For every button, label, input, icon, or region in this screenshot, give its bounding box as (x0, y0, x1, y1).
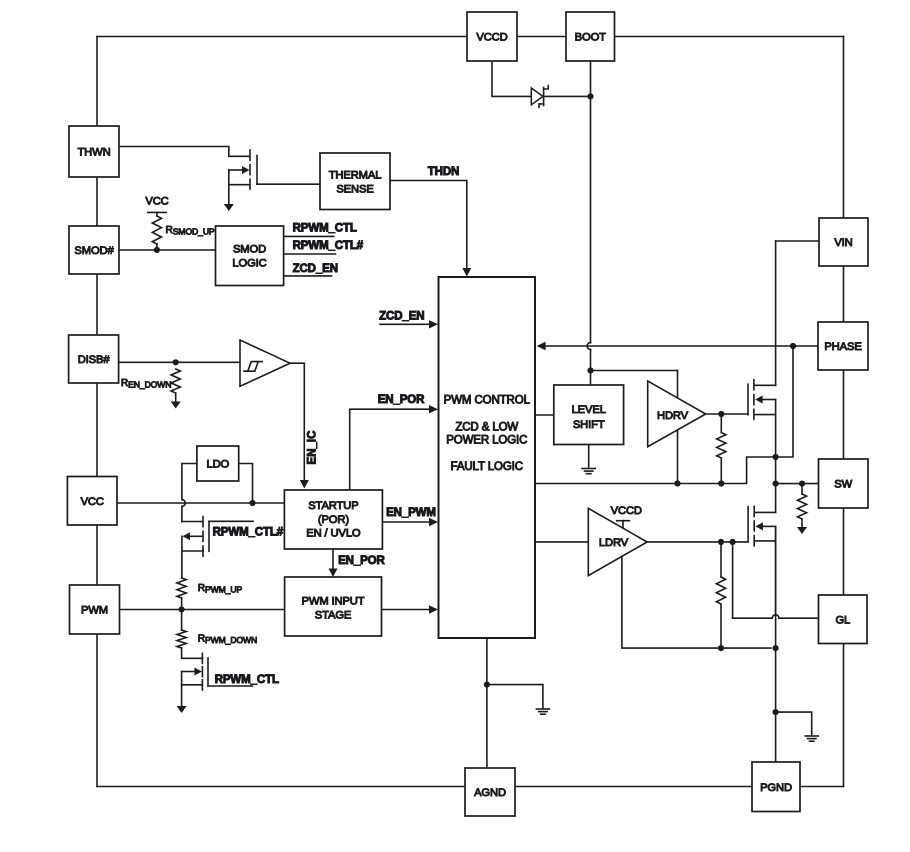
svg-text:SHIFT: SHIFT (573, 419, 605, 431)
svg-text:GL: GL (835, 615, 850, 627)
svg-text:RPWM_CTL#: RPWM_CTL# (213, 526, 284, 538)
svg-text:PWM CONTROL: PWM CONTROL (444, 395, 531, 407)
svg-text:RPWM_DOWN: RPWM_DOWN (198, 634, 257, 646)
svg-text:VCC: VCC (81, 496, 104, 508)
svg-text:BOOT: BOOT (575, 32, 607, 44)
svg-text:THERMAL: THERMAL (329, 170, 382, 182)
svg-text:THWN: THWN (77, 147, 110, 159)
svg-text:VCC: VCC (145, 196, 168, 208)
svg-text:RPWM_CTL: RPWM_CTL (215, 674, 279, 686)
svg-text:STARTUP: STARTUP (308, 500, 358, 512)
svg-text:HDRV: HDRV (657, 410, 689, 422)
svg-text:SENSE: SENSE (336, 184, 373, 196)
svg-text:LDRV: LDRV (599, 537, 629, 549)
svg-text:EN_IC: EN_IC (307, 431, 319, 465)
svg-text:LOGIC: LOGIC (232, 258, 266, 270)
svg-text:VIN: VIN (834, 237, 852, 249)
svg-text:AGND: AGND (474, 787, 506, 799)
svg-text:EN_POR: EN_POR (378, 394, 425, 406)
svg-text:LDO: LDO (206, 459, 229, 471)
svg-text:STAGE: STAGE (315, 610, 352, 622)
svg-text:REN_DOWN: REN_DOWN (121, 378, 171, 390)
svg-text:LEVEL: LEVEL (572, 404, 606, 416)
svg-text:SMOD: SMOD (233, 244, 266, 256)
svg-text:PWM INPUT: PWM INPUT (302, 596, 365, 608)
svg-text:VCCD: VCCD (611, 505, 642, 517)
svg-text:THDN: THDN (428, 166, 459, 178)
svg-text:EN_POR: EN_POR (338, 555, 385, 567)
svg-text:RSMOD_UP: RSMOD_UP (166, 225, 215, 237)
svg-text:FAULT LOGIC: FAULT LOGIC (451, 461, 523, 473)
svg-text:ZCD & LOW: ZCD & LOW (455, 422, 518, 434)
svg-text:POWER LOGIC: POWER LOGIC (446, 435, 527, 447)
svg-text:EN_PWM: EN_PWM (386, 507, 436, 519)
svg-text:VCCD: VCCD (476, 32, 507, 44)
svg-text:DISB#: DISB# (78, 354, 111, 366)
svg-text:(POR): (POR) (318, 514, 349, 526)
svg-text:RPWM_CTL: RPWM_CTL (293, 223, 357, 235)
svg-text:ZCD_EN: ZCD_EN (379, 311, 424, 323)
svg-text:RPWM_CTL#: RPWM_CTL# (293, 240, 364, 252)
svg-text:PHASE: PHASE (824, 341, 861, 353)
svg-text:SW: SW (834, 479, 852, 491)
svg-text:SMOD#: SMOD# (74, 245, 114, 257)
svg-text:PGND: PGND (760, 782, 792, 794)
svg-text:EN / UVLO: EN / UVLO (306, 528, 361, 540)
svg-text:PWM: PWM (81, 605, 108, 617)
svg-text:RPWM_UP: RPWM_UP (198, 583, 243, 595)
svg-text:ZCD_EN: ZCD_EN (293, 263, 338, 275)
